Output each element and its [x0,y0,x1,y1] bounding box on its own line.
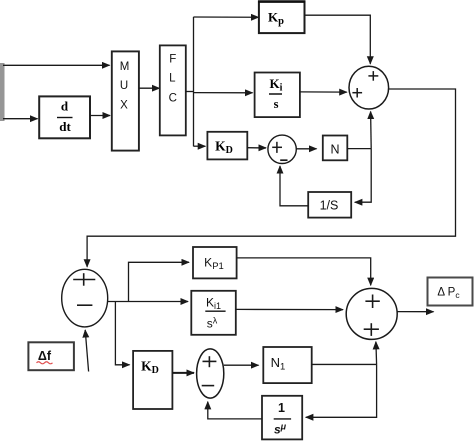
wire branch to Kp [194,16,259,18]
wire Ki1 to summer S4 [236,308,343,310]
wire Kp1 to summer S4 [237,258,371,285]
wire branch vertical (FLC fan-out) [193,17,195,147]
block N1 [263,347,311,383]
summing junction S5 [197,349,224,398]
S5 minus [202,385,215,387]
svg-text:dt: dt [59,119,71,134]
svg-text:1/S: 1/S [320,199,339,213]
svg-text:C: C [169,93,177,105]
wire junction down to 1/s^mu [306,364,377,417]
wire N1 output to junction [312,363,377,365]
block Ki/s [255,73,300,118]
S5 plus [203,356,217,367]
S1 plus (left) [352,88,362,98]
S3 plus [73,273,95,286]
wire S4 output to ΔPc [397,311,433,313]
node input-bus (gray vertical bar, left edge) [0,63,5,121]
wire d/dt to MUX [90,115,110,117]
block N (derivative filter) [323,136,348,161]
wire branch down to Kd [194,145,206,147]
svg-text:d: d [61,99,69,114]
wire junction down to 1/S [355,149,371,203]
block MUX [112,51,139,150]
S4 plus (top) [365,295,379,309]
block d/dt [39,96,90,138]
wire S5 to N1 [224,364,259,366]
block FLC [160,45,186,135]
svg-text:Δf: Δf [38,349,52,363]
wire N output to junction [347,148,371,150]
block Kd1 (derivative gain, bottom) [133,351,172,409]
block Ki1/s^lambda [191,291,236,335]
svg-text:1: 1 [278,401,285,415]
wire S3 output to Ki1 [108,301,188,303]
block Kp [258,2,305,34]
wire S1 output feedback to S3 [87,89,455,267]
summing junction S2 [268,135,296,163]
wire junction up to S1 [370,112,373,149]
svg-text:X: X [120,100,128,112]
wire MUX to FLC [139,87,160,89]
wire junction up to S4 [375,342,378,365]
block Kd (derivative gain, top) [207,132,247,160]
S2 minus [280,159,287,161]
wire branch down to Kd1 [115,302,129,365]
wire Ki/s to summer S1 [300,91,347,93]
wire S2 to N [296,148,316,150]
svg-text:F: F [169,54,176,66]
S2 plus [272,142,282,153]
wire 1/S back to S2 (negative) [280,166,308,206]
svg-text:L: L [169,73,176,85]
wire input to MUX (top) [3,64,110,66]
summing junction S4 (bottom right) [346,288,397,339]
wire FLC output to branch node [186,91,194,93]
wire input to d/dt [3,118,38,120]
summing junction S1 [349,66,389,109]
block Δf label [28,342,74,370]
S1 plus (top) [368,71,378,81]
summing junction S3 (bottom left) [62,269,108,327]
block 1/s^mu (fractional integrator) [262,396,302,440]
S3 minus [77,304,92,306]
wire branch up to Kp1 [129,262,190,301]
svg-text:M: M [120,61,130,73]
svg-text:s: s [274,97,279,111]
block 1/S (integrator) [308,192,351,218]
svg-text:N: N [330,143,339,157]
wire Kd to summer S2 [247,147,266,149]
S4 plus (bottom) [364,323,379,336]
svg-text:U: U [120,80,128,92]
block ΔPc output label [428,278,473,306]
wire Δf input to S3 (negative) [85,330,88,372]
block Kp1 [193,247,237,278]
wire Kp to summer S1 [305,15,371,64]
wire branch to Ki/s [194,92,253,94]
wire Kd1 to summer S5 [172,372,194,374]
wire 1/s^mu back to S5 (negative) [208,402,262,419]
